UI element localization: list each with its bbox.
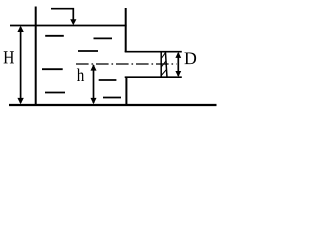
inflow arrow polyline xyxy=(51,9,73,20)
nozzle section hatching xyxy=(161,52,166,75)
D dimension line xyxy=(177,53,179,76)
water surface line with H extension xyxy=(10,25,127,27)
D top arrowhead xyxy=(175,52,181,58)
tank right wall lower xyxy=(125,77,127,105)
water mark dash 5 xyxy=(99,79,117,81)
ground line xyxy=(9,104,217,106)
nozzle bottom line xyxy=(125,76,182,78)
water mark dash 1 xyxy=(45,35,64,37)
h dimension line xyxy=(93,65,95,103)
nozzle top line xyxy=(125,51,182,53)
water mark dash 3 xyxy=(78,50,98,52)
nozzle end section right edge xyxy=(165,51,167,77)
label D xyxy=(185,53,197,65)
h top arrowhead xyxy=(91,64,97,70)
nozzle end section left edge xyxy=(160,51,162,77)
water mark dash 4 xyxy=(42,68,63,70)
tank right wall upper xyxy=(125,8,127,52)
H top arrowhead xyxy=(17,26,23,32)
tank left wall xyxy=(35,7,37,106)
inflow arrowhead xyxy=(70,19,76,25)
H bottom arrowhead xyxy=(17,98,23,104)
centerline (dash-dot axis of nozzle) xyxy=(76,63,177,65)
label H xyxy=(4,51,14,63)
h bottom arrowhead xyxy=(91,98,97,104)
H dimension line xyxy=(20,27,22,103)
D bottom arrowhead xyxy=(175,71,181,77)
water mark dash 2 xyxy=(94,37,113,39)
label h xyxy=(77,68,84,81)
water mark dash 7 xyxy=(103,97,121,99)
water mark dash 6 xyxy=(45,92,65,94)
